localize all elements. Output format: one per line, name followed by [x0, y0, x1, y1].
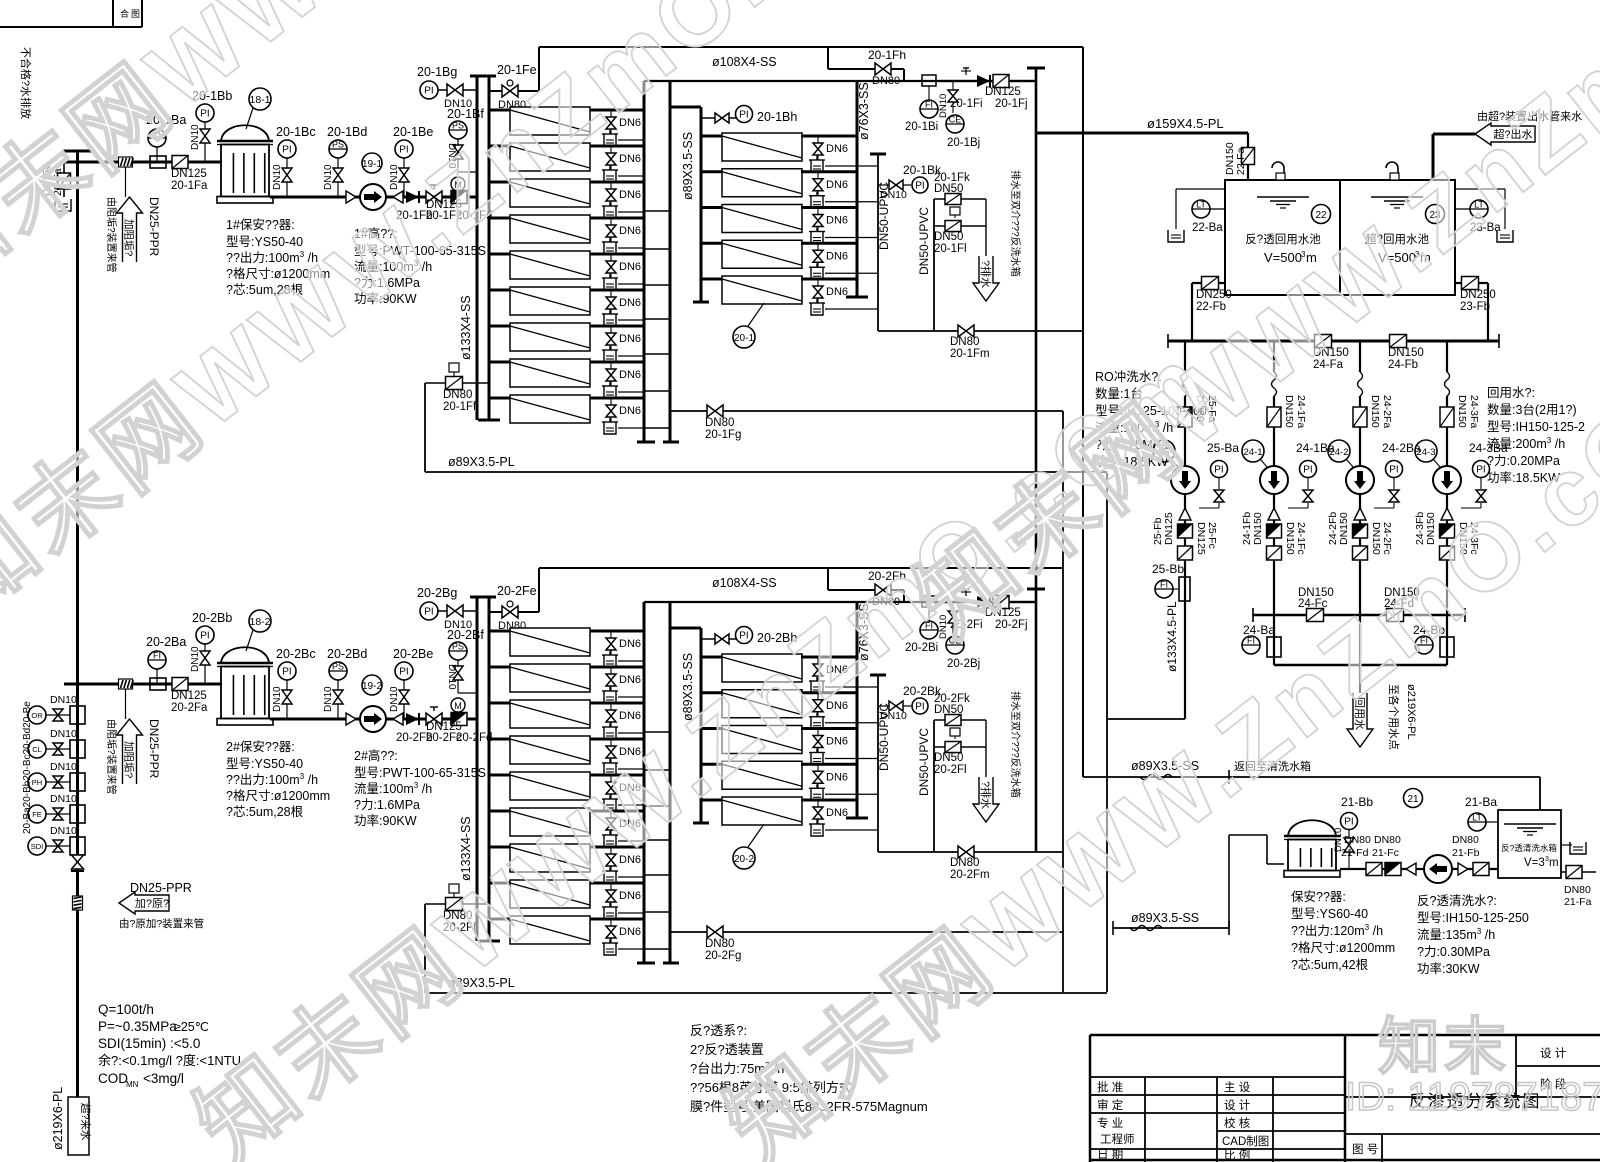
- svg-text:DN80: DN80: [705, 417, 734, 429]
- svg-text:<3mg/l: <3mg/l: [143, 1071, 184, 1086]
- svg-text:LT: LT: [1472, 813, 1482, 823]
- sample valve DN6 train 1 right row 1: [809, 136, 878, 172]
- svg-text:日 期: 日 期: [1097, 1148, 1123, 1161]
- wire stage1 top line ø108X4-SS train 2: [644, 601, 1036, 603]
- svg-text:由阻垢?装置来管: 由阻垢?装置来管: [105, 719, 118, 795]
- svg-text:DN6: DN6: [619, 297, 641, 309]
- svg-text:型号:YS50-40: 型号:YS50-40: [226, 235, 303, 249]
- interstage header pipe train 2: [644, 602, 679, 963]
- svg-text:19-1: 19-1: [362, 159, 382, 170]
- svg-text:审 定: 审 定: [1097, 1098, 1124, 1112]
- flow transmitter FI 20-1Ba: [146, 113, 186, 168]
- watermark diagonal band bottom: [707, 326, 1600, 1162]
- svg-text:DN6: DN6: [619, 405, 641, 417]
- cleaning water tank V=3m3: [1498, 810, 1561, 878]
- concentrate collection pipe ø76X3-SS train 2: [846, 602, 871, 818]
- sample valve DN6 train 1 right row 3: [809, 208, 878, 244]
- valve DN125 20-1Fa: [171, 156, 208, 193]
- svg-text:FI: FI: [925, 100, 933, 110]
- svg-text:ø219X6-PL: ø219X6-PL: [1405, 684, 1417, 740]
- svg-text:DN125: DN125: [985, 86, 1021, 98]
- membrane vessel train 1 left row 5: [489, 251, 644, 279]
- svg-text:24-Fb: 24-Fb: [1388, 359, 1418, 371]
- svg-text:设 计: 设 计: [1540, 1047, 1567, 1060]
- sample valve DN6 train 2 left row 8: [602, 883, 644, 919]
- svg-text:DN150: DN150: [1369, 395, 1381, 428]
- svg-text:24-2Fc: 24-2Fc: [1381, 522, 1393, 555]
- svg-text:20-2Fe: 20-2Fe: [497, 584, 537, 598]
- flush pipe DN50-UPVC train 2 second: [917, 720, 934, 852]
- svg-text:24-3: 24-3: [1416, 447, 1435, 458]
- pump tag circle 24-1: [1242, 440, 1268, 468]
- sample valve DN6 train 1 right row 4: [809, 243, 878, 279]
- membrane vessel train 1 left row 7: [489, 323, 644, 351]
- svg-text:DN25-PPR: DN25-PPR: [147, 719, 161, 779]
- svg-text:DN6: DN6: [826, 736, 848, 748]
- wire flush supply ø89X3.5-PL train 1: [425, 383, 1107, 472]
- wire stage1 top line ø108X4-SS train 1: [644, 80, 1036, 82]
- sample valve DN6 train 1 left row 5: [602, 254, 644, 290]
- pressure gauge PI 20-2Bg: [417, 586, 477, 631]
- membrane vessel train 2 left row 9: [489, 916, 644, 944]
- svg-text:COD: COD: [98, 1071, 128, 1086]
- flex coupling on main riser: [73, 896, 83, 910]
- sample valve DN6 train 2 left row 4: [602, 739, 644, 775]
- residual chlorine meter 20-B on main riser: [28, 728, 85, 758]
- svg-text:20-1Bj: 20-1Bj: [947, 137, 980, 149]
- svg-text:PS: PS: [452, 642, 464, 652]
- title block right section: [1345, 1035, 1600, 1162]
- svg-text:知末: 知末: [1378, 1013, 1510, 1082]
- svg-text:加?原?: 加?原?: [135, 897, 169, 910]
- svg-text:DN6: DN6: [619, 674, 641, 686]
- label pipe ø108X4-SS train 1: [712, 55, 777, 69]
- pressure gauge PI 20-2Bc: [272, 647, 316, 719]
- instrument 20-B on main riser: [28, 793, 85, 823]
- stage2 feed header train 1: [670, 107, 709, 302]
- cleaning security filter vessel: [1284, 820, 1340, 877]
- sample valve DN6 train 2 right row 2: [809, 693, 878, 729]
- watermark ID number: [1345, 1075, 1600, 1119]
- svg-text:24-2Fb: 24-2Fb: [1327, 512, 1339, 545]
- pump 24-1 circle: [1260, 466, 1288, 494]
- tank vent hooks: [1272, 162, 1399, 180]
- svg-text:22-Fa: 22-Fa: [1235, 147, 1247, 175]
- flush return valve DN80 20-2Fm: [878, 846, 1063, 881]
- svg-text:20-2Fd: 20-2Fd: [456, 732, 492, 744]
- membrane vessel train 2 left row 4: [489, 736, 644, 764]
- svg-text:20-1Fm: 20-1Fm: [950, 348, 990, 360]
- sample valve DN6 train 2 right row 1: [809, 657, 878, 693]
- svg-text:DN80: DN80: [1374, 834, 1401, 846]
- svg-text:ø76X3-SS: ø76X3-SS: [857, 82, 871, 140]
- svg-text:??出力:120m3 /h: ??出力:120m3 /h: [1291, 923, 1383, 938]
- membrane vessel train 2 left row 5: [489, 772, 644, 800]
- membrane vessel train 2 right row 2: [701, 690, 857, 718]
- pump 25 suction drop: [1178, 341, 1218, 466]
- antiscalant dosing arrow 加阻垢? train 1: [105, 167, 161, 273]
- pump tag circle 25: [1153, 440, 1179, 468]
- svg-text:DN10: DN10: [50, 728, 77, 740]
- svg-text:型号:PWT-100-65-315S: 型号:PWT-100-65-315S: [354, 766, 486, 780]
- svg-text:m: m: [1549, 857, 1559, 869]
- label instrument tags 20-Ba..20-Be: [22, 701, 33, 834]
- svg-text:型号:YS60-40: 型号:YS60-40: [1291, 907, 1368, 921]
- pump 24-2 discharge valves: [1327, 494, 1393, 561]
- svg-text:PI: PI: [200, 631, 209, 642]
- wire permeate riser marks train 2: [1027, 588, 1045, 591]
- svg-text:20-1Fh: 20-1Fh: [868, 48, 906, 62]
- equipment tag circle 18-2: [246, 610, 271, 651]
- svg-text:20-1Bg: 20-1Bg: [417, 65, 457, 79]
- equipment tag circle 20-2 membrane bank: [733, 824, 764, 869]
- svg-text:DN25-PPR: DN25-PPR: [147, 197, 161, 257]
- sample valve DN6 train 2 right row 4: [809, 764, 878, 800]
- svg-text:20-2Bb: 20-2Bb: [192, 611, 232, 625]
- svg-text:DN50: DN50: [934, 231, 963, 243]
- svg-text:CL: CL: [32, 745, 42, 754]
- drawing frame corner top-left: [0, 0, 142, 27]
- svg-text:DN10: DN10: [444, 619, 472, 631]
- svg-text:FE: FE: [32, 810, 42, 819]
- tank 23 UF product water tank: [1365, 197, 1444, 265]
- concentrate outlet valve DN80 20-1Fg: [670, 405, 1063, 441]
- svg-text:比 例: 比 例: [1224, 1148, 1250, 1162]
- pressure switch PS 20-1Bd: [323, 125, 367, 197]
- svg-text:FI: FI: [1247, 636, 1255, 646]
- svg-text:PI: PI: [739, 631, 748, 642]
- svg-text:DN150: DN150: [1338, 512, 1350, 545]
- cleaning tank drain cup: [1561, 842, 1586, 854]
- svg-text:DN10: DN10: [323, 164, 334, 190]
- pressure gauge PI 20-1Bb: [190, 89, 232, 162]
- flush pipe DN50-UPVC train 1 second: [917, 199, 934, 331]
- sample valve DN6 train 2 left row 7: [602, 847, 644, 883]
- svg-text:DN125: DN125: [1195, 522, 1207, 555]
- pressure gauge PI 20-1Bg: [417, 65, 477, 110]
- svg-text:PI: PI: [399, 667, 408, 678]
- svg-text:DN50: DN50: [934, 752, 963, 764]
- flush inlet valve DN80 20-2Ff: [425, 884, 489, 934]
- sample valve DN6 train 1 right row 5: [809, 279, 878, 315]
- svg-text:PS: PS: [332, 662, 344, 672]
- flow element and FI 20-2Bi: [905, 596, 938, 654]
- flush pipe DN50-UPVC train 1 first: [870, 154, 891, 331]
- svg-text:22: 22: [1315, 210, 1327, 221]
- pump 25 discharge valves: [1152, 494, 1218, 561]
- svg-text:PI: PI: [1303, 465, 1312, 476]
- tank 22 outlet valve DN250 22-Fb: [1192, 277, 1232, 342]
- label pipe ø219X6-PL: [51, 1087, 65, 1150]
- flow element and FI 20-1Bi: [905, 75, 938, 133]
- text block high pressure pump specs train 1: [354, 226, 486, 306]
- svg-text:20-2Be: 20-2Be: [393, 647, 433, 661]
- membrane vessel train 1 left row 4: [489, 215, 644, 243]
- valve DN80 20-2Fh top bypass: [828, 568, 906, 608]
- svg-text:20-2Ba: 20-2Ba: [146, 635, 186, 649]
- svg-text:21-Ba: 21-Ba: [1465, 795, 1497, 809]
- pressure switch PS 20-2Bd: [323, 647, 367, 719]
- svg-text:流量:100m3 /h: 流量:100m3 /h: [354, 781, 432, 796]
- svg-text:DN80: DN80: [1564, 884, 1591, 896]
- svg-text:DN6: DN6: [619, 189, 641, 201]
- svg-text:ø219X6-PL: ø219X6-PL: [51, 1087, 65, 1150]
- svg-text:20-2Bg: 20-2Bg: [417, 586, 457, 600]
- sample valve DN6 train 2 left row 9: [602, 919, 644, 955]
- dosing point 加?原? with arrow: [119, 881, 204, 930]
- level transmitter 23-Ba: [1455, 189, 1513, 242]
- svg-text:25-Fb: 25-Fb: [1152, 517, 1164, 545]
- svg-text:DN10: DN10: [190, 646, 201, 672]
- svg-text:24-3Fa: 24-3Fa: [1468, 395, 1480, 428]
- svg-text:21-Fd: 21-Fd: [1341, 847, 1369, 859]
- pump 24-3 discharge valves: [1414, 494, 1480, 561]
- svg-text:Q=100t/h: Q=100t/h: [98, 1002, 154, 1017]
- membrane vessel train 1 left row 6: [489, 287, 644, 315]
- wire bypass to top line train 2: [539, 568, 1063, 612]
- svg-text:?芯:5um,42根: ?芯:5um,42根: [1291, 958, 1369, 972]
- stage2 feed header train 2: [670, 628, 709, 823]
- svg-text:PI: PI: [739, 110, 748, 121]
- text block security filter specs train 1: [226, 217, 330, 297]
- svg-text:DN10: DN10: [880, 189, 907, 201]
- membrane vessel train 1 left row 1: [489, 107, 644, 135]
- pump tag circle 24-3: [1415, 440, 1441, 468]
- svg-text:PI: PI: [1389, 465, 1398, 476]
- svg-text:型号:YS50-40: 型号:YS50-40: [226, 757, 303, 771]
- sample valve DN6 train 1 left row 8: [602, 362, 644, 398]
- svg-text:图: 图: [131, 9, 140, 19]
- concentrate outlet valve DN80 20-2Fg: [670, 926, 1063, 962]
- svg-text:主 设: 主 设: [1224, 1081, 1251, 1094]
- svg-text:PI: PI: [424, 86, 433, 97]
- title block middle labels: [1222, 1081, 1269, 1162]
- svg-text:DN6: DN6: [826, 250, 848, 262]
- flush valves DN50 20-1Fk 20-1Fl: [934, 172, 986, 256]
- svg-text:SDI: SDI: [31, 842, 44, 851]
- flush inlet valve DN80 20-1Ff: [425, 363, 489, 413]
- sample valve DN6 train 1 left row 4: [602, 218, 644, 254]
- flex coupling train 1 feed: [119, 157, 134, 167]
- svg-text:DN10: DN10: [446, 664, 457, 690]
- level transmitter LT 21-Ba: [1465, 795, 1498, 831]
- text block RO system summary: [690, 1023, 928, 1114]
- svg-text:数量:3台(2用1?): 数量:3台(2用1?): [1487, 402, 1577, 417]
- svg-text:PI: PI: [915, 181, 924, 192]
- gauge PI 25-Ba: [1199, 441, 1239, 508]
- svg-text:LT: LT: [1196, 200, 1206, 210]
- pump 24-1 suction drop: [1267, 341, 1307, 466]
- svg-text:校 核: 校 核: [1224, 1116, 1251, 1130]
- svg-text:21-Fc: 21-Fc: [1372, 847, 1399, 859]
- svg-text:DN6: DN6: [619, 225, 641, 237]
- text block RO flush pump specs: [1095, 369, 1207, 469]
- wire flush line to pump 25: [1107, 473, 1185, 992]
- text block cleaning pump specs: [1417, 894, 1529, 976]
- svg-text:DN80: DN80: [443, 389, 472, 401]
- svg-text:排水至双介???反洗水箱: 排水至双介???反洗水箱: [1009, 691, 1022, 798]
- svg-text:ø159X4.5-PL: ø159X4.5-PL: [1147, 116, 1224, 131]
- membrane vessel train 1 right row 3: [701, 205, 857, 233]
- svg-text:DN50-UPVC: DN50-UPVC: [917, 728, 931, 796]
- svg-text:DN10: DN10: [444, 98, 472, 110]
- wire concentrate collection vertical 1063: [1062, 411, 1064, 992]
- pump 24-1 discharge valves: [1241, 494, 1307, 561]
- concentrate header pipe train 1 left: [637, 81, 655, 442]
- sample valve DN6 train 1 left row 9: [602, 398, 644, 434]
- svg-text:DN10: DN10: [50, 825, 77, 837]
- svg-text:DN10: DN10: [272, 164, 283, 190]
- gauge PI 20-2Bk flush: [878, 684, 942, 722]
- svg-text:2#保安??器:: 2#保安??器:: [226, 739, 295, 754]
- svg-text:回用水?:: 回用水?:: [1487, 386, 1535, 400]
- wire reuse water collector: [1274, 615, 1447, 693]
- svg-text:DN10: DN10: [880, 710, 907, 722]
- membrane vessel train 1 right row 4: [701, 240, 857, 268]
- pump 24-3 circle: [1433, 466, 1461, 494]
- cleaning tank outlet valve DN80 21-Fa: [1561, 866, 1596, 909]
- svg-text:?力:0.30MPa: ?力:0.30MPa: [1417, 945, 1490, 959]
- svg-text:?芯:5um,28根: ?芯:5um,28根: [226, 805, 304, 819]
- svg-text:FI: FI: [1160, 580, 1168, 590]
- svg-text:20-1: 20-1: [734, 333, 754, 344]
- svg-text:1#保安??器:: 1#保安??器:: [226, 217, 295, 232]
- svg-text:DN150: DN150: [1284, 522, 1296, 555]
- sample valve DN6 train 2 left row 5: [602, 775, 644, 811]
- svg-text:DN6: DN6: [619, 638, 641, 650]
- gauge PI 24-2Ba: [1374, 441, 1421, 508]
- membrane vessel train 1 left row 3: [489, 179, 644, 207]
- svg-text:反?透清洗水箱: 反?透清洗水箱: [1501, 843, 1557, 853]
- svg-text:P=~0.35MPa: P=~0.35MPa: [98, 1019, 177, 1034]
- svg-text:ø108X4-SS: ø108X4-SS: [712, 576, 777, 590]
- svg-text:20-1Fj: 20-1Fj: [995, 98, 1028, 110]
- watermark logo 知末: [1378, 1013, 1510, 1082]
- svg-text:24-1Fb: 24-1Fb: [1241, 512, 1253, 545]
- svg-text:DN6: DN6: [619, 710, 641, 722]
- valve DN125 20-2Fa: [171, 678, 208, 715]
- svg-text:24-2: 24-2: [1329, 447, 1348, 458]
- motor valve symbol train 1: [451, 177, 465, 191]
- svg-text:21-Fa: 21-Fa: [1564, 896, 1592, 908]
- svg-text:PI: PI: [1214, 465, 1223, 476]
- pressure gauge PI 20-2Be: [389, 647, 433, 719]
- svg-text:DN10: DN10: [50, 694, 77, 706]
- valve DN150 22-Fa tank inlet: [1224, 133, 1255, 180]
- svg-text:DN6: DN6: [826, 215, 848, 227]
- membrane vessel train 2 left row 2: [489, 664, 644, 692]
- watermark diagonal band right: [897, 0, 1600, 657]
- system tag circle 21: [1404, 789, 1423, 808]
- svg-text:设 计: 设 计: [1224, 1099, 1251, 1112]
- svg-text:21-Bb: 21-Bb: [1341, 795, 1373, 809]
- svg-text:24-1: 24-1: [1243, 447, 1262, 458]
- svg-text:ID: 1197871875: ID: 1197871875: [1345, 1075, 1600, 1119]
- concentrate header pipe train 2 left: [637, 602, 655, 963]
- svg-text:功率:90KW: 功率:90KW: [354, 813, 417, 828]
- text block cleaning filter specs: [1291, 889, 1395, 972]
- svg-text:20-Ba20-Bb20-Bc20-Bd20-Be: 20-Ba20-Bb20-Bc20-Bd20-Be: [22, 701, 33, 834]
- SDI meter 20-B on main riser: [28, 825, 85, 855]
- svg-text:合: 合: [120, 8, 129, 19]
- gauge PI 24-3Ba: [1461, 441, 1508, 508]
- wire return line ø89X3.5-SS lower: [1113, 835, 1284, 935]
- svg-text:DN10: DN10: [323, 686, 334, 712]
- svg-text:20-2Fl: 20-2Fl: [934, 764, 967, 776]
- sample valve DN6 train 2 left row 1: [602, 631, 644, 667]
- svg-text:20-2: 20-2: [734, 854, 754, 865]
- wire product line ø159X4.5-PL: [1036, 116, 1248, 133]
- gauge PI 20-1Bk flush: [878, 163, 942, 201]
- svg-text:20-1Bh: 20-1Bh: [757, 110, 797, 124]
- interstage header pipe train 1: [644, 81, 679, 442]
- svg-text:排水至双介???反洗水箱: 排水至双介???反洗水箱: [1009, 170, 1022, 277]
- svg-text:2?反?透装置: 2?反?透装置: [690, 1042, 764, 1057]
- reject drain valve DN150 20-Fa: [41, 162, 71, 211]
- text block reuse pump specs: [1487, 386, 1585, 485]
- feed header pipe ø133X4-SS train 2: [470, 597, 500, 941]
- drain arrow ?排水 train 2: [973, 691, 1022, 822]
- pump 24-2 suction drop: [1353, 341, 1393, 466]
- membrane vessel train 1 left row 2: [489, 143, 644, 171]
- svg-text:PI: PI: [1476, 465, 1485, 476]
- svg-text:20-2Bd: 20-2Bd: [327, 647, 367, 661]
- membrane vessel train 1 right row 2: [701, 169, 857, 197]
- sample valve DN6 train 1 left row 7: [602, 326, 644, 362]
- high pressure pump 19-1: [346, 153, 386, 210]
- wire pump discharge train 2: [386, 718, 477, 721]
- check and isolation valves 20-2Fb 20-2Fc 20-2Fd: [393, 707, 492, 744]
- pump 25 circle: [1171, 466, 1199, 494]
- pressure switch PS 20-2Bf: [446, 628, 484, 693]
- svg-text:PH: PH: [32, 778, 42, 787]
- pH meter 20-B on main riser: [28, 761, 85, 791]
- svg-text:工程师: 工程师: [1100, 1133, 1135, 1146]
- sample valve DN6 train 2 right row 5: [809, 800, 878, 836]
- membrane vessel train 2 left row 7: [489, 844, 644, 872]
- svg-text:??出力:100m3 /h: ??出力:100m3 /h: [226, 772, 318, 787]
- pump 24-2 circle: [1346, 466, 1374, 494]
- watermark diagonal band center: [177, 326, 1230, 1162]
- svg-text:PI: PI: [424, 607, 433, 618]
- label pipe ø89X3.5-SS train 2 interstage: [681, 653, 695, 721]
- svg-text:20-1Fa: 20-1Fa: [171, 180, 208, 192]
- svg-text:?力:1.6MPa: ?力:1.6MPa: [354, 798, 420, 812]
- svg-text:PI: PI: [915, 702, 924, 713]
- svg-text:19-2: 19-2: [362, 681, 382, 692]
- svg-text:DN125: DN125: [171, 690, 207, 702]
- header valve DN150 24-Fc: [1298, 587, 1334, 622]
- svg-text:24-1Fc: 24-1Fc: [1295, 522, 1307, 555]
- svg-text:DN150: DN150: [1252, 512, 1264, 545]
- label 不合格?水排放: [19, 47, 33, 119]
- gauge PI 20-2Bh stage2: [701, 627, 797, 646]
- ORP meter 20-B on main riser: [28, 694, 85, 724]
- valve DN80 20-2Fe: [489, 584, 539, 632]
- svg-text:由阻垢?装置来管: 由阻垢?装置来管: [105, 197, 118, 273]
- watermark diagonal band top-left: [0, 0, 941, 317]
- svg-text:DN50-UPVC: DN50-UPVC: [917, 207, 931, 275]
- svg-text:DN6: DN6: [826, 771, 848, 783]
- sample valve DN6 train 1 left row 3: [602, 182, 644, 218]
- cleaning line valves DN80 21-Fd 21-Fc: [1341, 834, 1401, 876]
- svg-text:不合格?水排放: 不合格?水排放: [19, 47, 33, 119]
- svg-text:DN6: DN6: [826, 179, 848, 191]
- svg-text:加阻垢?: 加阻垢?: [123, 741, 135, 778]
- svg-text:MN: MN: [126, 1080, 139, 1089]
- membrane vessel train 1 right row 1: [701, 133, 857, 161]
- valve DN80 20-1Fh top bypass: [828, 47, 906, 87]
